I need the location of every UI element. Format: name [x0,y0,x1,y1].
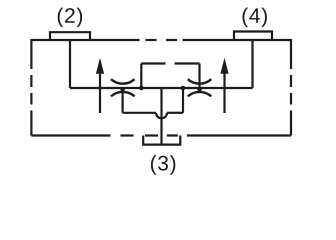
enclosure boundary left edge (dashed) [30,39,32,136]
enclosure boundary top edge (dashed) [31,39,291,41]
wire: port 3 center vertical [160,88,162,145]
wire: main horizontal line [70,87,253,89]
flow arrow left head [96,58,104,74]
wire: port 4 branch vertical [251,40,253,88]
flow arrow right head [220,58,228,74]
wire: port 2 branch vertical [69,40,71,88]
enclosure boundary right edge (dashed) [290,39,292,136]
compensator box right side [198,64,200,89]
orifice left top arc [111,79,135,83]
orifice left bottom arc [111,92,135,96]
pilot line left drop [121,88,123,113]
port label (4) [242,8,266,28]
port 3 tab [143,136,180,145]
compensator box top edge (with gap) [141,62,165,64]
junction dot at pilot riser [181,86,186,91]
flow arrow left shaft [99,62,101,113]
pilot line bottom run (left of hop) [123,112,156,114]
crossover hop [156,113,167,119]
port 2 tab [50,32,90,40]
port label (3) [151,155,175,175]
port label (2) [58,8,82,28]
junction dot at box left foot [139,86,144,91]
flow arrow right shaft [223,62,225,113]
enclosure boundary bottom edge (dashed) [31,134,291,136]
port 4 tab [234,32,272,41]
pilot line bottom run (right of hop) [167,112,183,114]
junction dot at left orifice [120,87,125,92]
compensator box left side [140,64,142,89]
orifice right top arc [188,79,212,83]
junction dot at right orifice [197,87,202,92]
pilot line right riser [182,88,184,113]
orifice right bottom arc [188,92,212,96]
